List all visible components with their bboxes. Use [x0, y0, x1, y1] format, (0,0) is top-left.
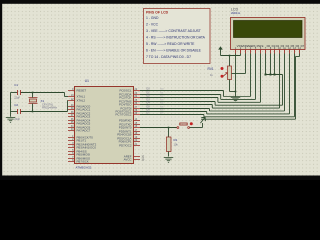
wire crystal top — [32, 93, 34, 98]
wire LCD VDD stub down — [240, 54, 242, 56]
wire PC1 drop — [220, 95, 222, 100]
wire crystal bottom — [32, 104, 34, 112]
wire LCD riser x=289.5 — [289, 54, 291, 114]
junction crystal bottom — [32, 111, 34, 113]
button click dot — [190, 122, 193, 125]
svg-text:LCD: LCD — [231, 7, 239, 11]
MCU left pin names — [77, 89, 97, 164]
wire XTAL1 left segment — [11, 92, 18, 94]
svg-text:PINS OF LCD: PINS OF LCD — [146, 10, 169, 14]
wire RV1 bottom to ground node — [230, 91, 236, 93]
wire junction to R1 — [168, 128, 170, 138]
wire LCD riser x=250.5 — [250, 54, 252, 97]
wire VDD rail horizontal — [221, 55, 241, 57]
svg-text:D7: D7 — [301, 44, 305, 48]
wire PC0 drop — [223, 91, 225, 97]
svg-text:E: E — [262, 44, 264, 48]
RV1 click dots — [221, 67, 224, 70]
wire XTAL2 into pin — [67, 100, 70, 102]
wire LCD D riser short x=274.5 — [274, 54, 276, 75]
svg-text:LM041L: LM041L — [231, 11, 241, 15]
wire PC4 horizontal — [140, 104, 212, 106]
wire PC5 horizontal — [140, 108, 210, 110]
svg-text:U1: U1 — [85, 79, 89, 83]
svg-text:3 - VEE ------> CONTRAST ADJUS: 3 - VEE ------> CONTRAST ADJUST — [146, 29, 201, 33]
crystal X1 — [29, 98, 38, 104]
svg-text:7 TO 14 - DATA PINS D0 - D7: 7 TO 14 - DATA PINS D0 - D7 — [146, 55, 191, 59]
svg-text:RV1: RV1 — [208, 67, 214, 71]
push button — [177, 123, 190, 128]
svg-text:RESET: RESET — [77, 89, 87, 93]
svg-text:R1: R1 — [174, 138, 178, 142]
junction R1 top — [168, 127, 170, 129]
power terminal (LCD VDD) — [218, 46, 223, 49]
MCU right pin names — [115, 89, 132, 162]
wire button to power — [202, 123, 204, 128]
wire riser x=282.5 — [282, 75, 284, 106]
wire PD2/INT0 to button left — [140, 127, 177, 129]
svg-text:2 - VCC: 2 - VCC — [146, 23, 159, 27]
wire XTAL2 mid segment — [20, 111, 67, 113]
LCD screen — [234, 21, 303, 38]
wire VEE to pot wiper — [232, 73, 246, 75]
microcontroller U1 ATMEGA32 body — [75, 87, 134, 164]
junction at (265.5,74.5) — [265, 74, 267, 76]
ground (LCD VSS / RV1) — [231, 97, 241, 102]
wire D0-D2 tie horizontal — [266, 74, 283, 76]
wire LCD D riser short x=270.5 — [270, 54, 272, 75]
power terminal (button) — [200, 117, 205, 123]
wire PC4 drop — [211, 105, 213, 109]
svg-text:XTAL2: XTAL2 — [77, 99, 86, 103]
svg-text:AVCC: AVCC — [124, 158, 132, 162]
svg-text:ATMEGA32: ATMEGA32 — [76, 165, 92, 169]
wire PC6 drop — [206, 112, 208, 114]
wire ground riser left — [10, 93, 12, 117]
svg-text:5 - RW ------> READ OR WRITE: 5 - RW ------> READ OR WRITE — [146, 42, 195, 46]
LCD LM041L body — [231, 18, 306, 50]
wire RV1 bottom down — [229, 80, 231, 92]
svg-text:X1: X1 — [41, 99, 45, 103]
wire LCD riser x=279.5 — [279, 54, 281, 109]
wire bus level y=119.2 — [201, 118, 296, 120]
wire PC7 horizontal — [140, 114, 204, 116]
wire PC1 horizontal — [140, 94, 221, 96]
MCU right pin numbers — [135, 88, 145, 162]
wire XTAL1 mid segment — [20, 92, 64, 94]
RV1 wiper arrow — [223, 73, 228, 77]
wire power pole LCD — [220, 51, 222, 56]
junction pot top on VDD rail — [229, 55, 231, 57]
MCU right pin stubs — [134, 91, 141, 160]
svg-text:FREQ=8MHz: FREQ=8MHz — [42, 106, 58, 109]
letterbox top — [0, 0, 320, 4]
svg-text:PA7/ADC7: PA7/ADC7 — [77, 129, 91, 133]
wire PC7 drop — [203, 115, 205, 117]
wire LCD riser x=260.5 — [260, 54, 262, 103]
wire LCD VSS down — [235, 54, 237, 97]
ground (R1) — [164, 158, 174, 163]
potentiometer RV1 body — [228, 66, 232, 80]
svg-text:22pF: 22pF — [14, 95, 20, 99]
wire bus level y=96.5 — [224, 96, 251, 98]
svg-text:1 - GND: 1 - GND — [146, 16, 159, 20]
wire bus level y=105.2 — [215, 104, 282, 106]
svg-text:C2: C2 — [14, 103, 18, 107]
wire LCD VEE down — [245, 54, 247, 74]
svg-text:10k: 10k — [174, 143, 179, 147]
wire bus level y=116.8 — [204, 116, 295, 118]
MCU left pin numbers — [71, 88, 74, 162]
MCU left pin stubs — [68, 91, 75, 162]
wire XTAL2 left segment — [11, 111, 18, 113]
wire R1 to ground — [168, 152, 170, 157]
svg-text:PB7/SCK: PB7/SCK — [77, 160, 89, 164]
LCD pin stubs — [236, 50, 300, 54]
wire PC2 horizontal — [140, 97, 218, 99]
letterbox bottom — [0, 176, 320, 181]
wire LCD riser x=255.5 — [255, 54, 257, 100]
svg-text:C1: C1 — [14, 83, 18, 87]
wire RV1 top to power rail — [229, 56, 231, 67]
wire bus level y=102.3 — [218, 101, 261, 103]
wire bus level y=111.0 — [210, 110, 285, 112]
junction crystal top — [32, 92, 34, 94]
wire XTAL1 drop — [64, 93, 66, 97]
wire bus level y=113.9 — [207, 113, 290, 115]
wire PC2 drop — [217, 98, 219, 103]
junction VSS/pot ground — [235, 91, 237, 93]
junction at (274.5,74.5) — [274, 74, 276, 76]
wire PC3 drop — [214, 102, 216, 106]
letterbox left — [0, 0, 2, 180]
svg-text:6 - EN ------> ENABLE OR DISAB: 6 - EN ------> ENABLE OR DISABLE — [146, 49, 202, 53]
resistor R1 — [167, 137, 172, 152]
svg-text:PD7/OC2: PD7/OC2 — [119, 144, 132, 148]
wire LCD pin14 riser with jog — [299, 54, 301, 57]
info box: PINS OF LCD — [144, 9, 211, 64]
wire LCD D riser short x=265.5 — [265, 54, 267, 75]
capacitor C1 — [18, 90, 21, 95]
wire XTAL2 rise — [67, 101, 69, 112]
ground (crystal caps) — [6, 118, 16, 123]
wire bus level y=108.1 — [212, 107, 279, 109]
wire bus level y=99.4 — [221, 98, 256, 100]
wire XTAL1 into pin — [65, 96, 69, 98]
wire LCD pin13 riser with jog — [294, 54, 296, 117]
wire PC0 horizontal — [140, 90, 224, 92]
wire PC3 horizontal — [140, 101, 215, 103]
wire LCD riser x=284.5 — [284, 54, 286, 112]
svg-text:PC7/TOSC2: PC7/TOSC2 — [115, 113, 131, 117]
capacitor C2 — [18, 109, 21, 114]
wire PC5 drop — [209, 109, 211, 112]
junction at (270.5,74.5) — [270, 74, 272, 76]
wire PC6 horizontal — [140, 111, 207, 113]
svg-text:4 - RS ------> INSTRUCTION OR: 4 - RS ------> INSTRUCTION OR DATA — [146, 36, 206, 40]
wire button right segment — [190, 127, 203, 129]
